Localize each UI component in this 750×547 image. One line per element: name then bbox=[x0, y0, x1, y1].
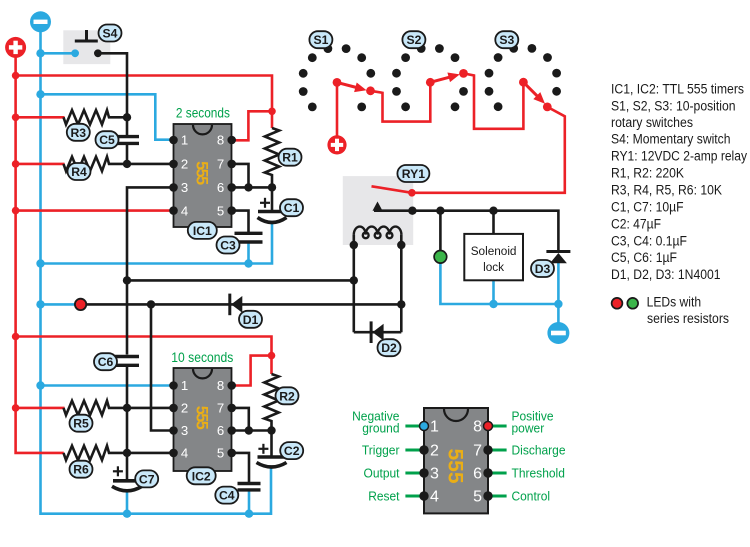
parts list legend text bbox=[611, 82, 747, 283]
svg-text:3: 3 bbox=[430, 466, 439, 483]
svg-text:IC1, IC2: TTL 555 timers: IC1, IC2: TTL 555 timers bbox=[611, 82, 744, 97]
svg-text:C3, C4: 0.1µF: C3, C4: 0.1µF bbox=[611, 233, 687, 248]
wire red R2 top lead bbox=[270, 356, 273, 374]
negative supply terminal bottom right bbox=[547, 322, 569, 344]
svg-text:series resistors: series resistors bbox=[647, 311, 729, 326]
svg-text:1: 1 bbox=[181, 133, 188, 148]
label pill RY1 bbox=[397, 165, 429, 182]
capacitor C4 bbox=[238, 484, 261, 490]
capacitor C6 bbox=[115, 357, 139, 366]
wire black IC1 pin 3 left and down to C6 top bbox=[127, 187, 174, 354]
wire red R1 node to IC1 pin 8 bbox=[232, 111, 272, 140]
svg-text:ground: ground bbox=[362, 422, 399, 436]
svg-text:LEDs with: LEDs with bbox=[647, 295, 702, 310]
label pill R2 bbox=[276, 387, 299, 404]
IC2 pin dots bbox=[169, 381, 236, 457]
svg-text:C4: C4 bbox=[219, 489, 235, 503]
wire black solenoid top stub bbox=[492, 211, 495, 234]
label pill S2 bbox=[402, 31, 425, 48]
svg-text:IC2: IC2 bbox=[192, 469, 211, 483]
svg-text:8: 8 bbox=[217, 133, 224, 148]
wire red rail to R2 top node bbox=[16, 337, 272, 356]
svg-text:C2: 47µF: C2: 47µF bbox=[611, 216, 661, 231]
svg-text:4: 4 bbox=[181, 203, 188, 218]
label pill R4 bbox=[68, 163, 91, 180]
wire black D2 loop bottom bbox=[354, 331, 402, 334]
wire red rail to R3 bbox=[16, 116, 65, 119]
svg-text:555: 555 bbox=[193, 406, 211, 430]
svg-text:D2: D2 bbox=[381, 341, 397, 355]
label pill R3 bbox=[67, 124, 90, 141]
555 pinout green labels bbox=[352, 410, 565, 504]
resistor R2 zigzag vertical bbox=[264, 374, 278, 431]
svg-text:S4: S4 bbox=[103, 27, 118, 41]
positive supply terminal at S1 bbox=[327, 135, 346, 154]
svg-text:Output: Output bbox=[364, 466, 400, 480]
svg-text:2: 2 bbox=[430, 443, 439, 460]
svg-text:power: power bbox=[512, 422, 545, 436]
label pill S4 bbox=[99, 25, 122, 42]
wire black IC2 pin 6 line to R2 bottom bbox=[232, 429, 272, 432]
wire black relay coil left leg down to D2 loop bbox=[352, 235, 355, 333]
label pill S1 bbox=[309, 31, 332, 48]
capacitor C1 polarized bbox=[258, 198, 287, 223]
IC1 555 timer body bbox=[174, 124, 232, 227]
svg-text:R3: R3 bbox=[71, 126, 87, 140]
svg-text:RY1: RY1 bbox=[402, 167, 425, 181]
svg-text:C1: C1 bbox=[284, 201, 300, 215]
wire black relay coil right leg down to D2 loop bbox=[400, 235, 403, 333]
wire blue C1 bottom to rail bbox=[41, 224, 273, 264]
green LED indicator bbox=[434, 250, 447, 263]
svg-text:C2: C2 bbox=[284, 444, 300, 458]
svg-text:7: 7 bbox=[217, 401, 224, 416]
svg-text:2: 2 bbox=[181, 157, 188, 172]
rotary switch S3 selected contact and wiper arrow bbox=[519, 78, 552, 112]
wire red R1 top lead bbox=[271, 111, 274, 128]
svg-text:C1, C7: 10µF: C1, C7: 10µF bbox=[611, 200, 684, 215]
svg-text:4: 4 bbox=[181, 446, 188, 461]
resistor R1 zigzag vertical bbox=[265, 128, 279, 187]
wire blue rail to IC1 pin 1 bbox=[41, 94, 174, 139]
label pill C1 bbox=[280, 199, 303, 216]
wire red rail to R1 top node bbox=[16, 76, 272, 112]
wire black C2 top lead bbox=[270, 431, 273, 456]
555 pinout pin numbers bbox=[430, 419, 482, 506]
svg-text:S1, S2, S3: 10-position: S1, S2, S3: 10-position bbox=[611, 98, 736, 113]
capacitor C5 bbox=[115, 137, 139, 144]
svg-text:C6: C6 bbox=[98, 355, 114, 369]
wire black relay contact line to solenoid, green LED and D3 bbox=[374, 211, 558, 250]
legend red LED symbol bbox=[612, 298, 623, 309]
diode D3 bbox=[546, 252, 570, 264]
svg-text:8: 8 bbox=[217, 378, 224, 393]
svg-text:10 seconds: 10 seconds bbox=[171, 350, 233, 365]
svg-text:lock: lock bbox=[483, 260, 505, 274]
resistor R3 zigzag bbox=[64, 110, 128, 124]
label pill C6 bbox=[94, 353, 117, 370]
wire blue D3 anode down to minus terminal bbox=[557, 263, 560, 323]
wire red S3 contact to relay RY1 armature contact bbox=[412, 107, 565, 193]
capacitor C3 bbox=[235, 233, 263, 242]
555 pinout diagram IC body bbox=[424, 408, 488, 513]
wire black IC1 pin3 column node to relay coil left bbox=[127, 279, 354, 282]
legend green LED symbol bbox=[627, 298, 638, 309]
wire blue negative rail from minus terminal down and along bottom to C2 bbox=[41, 30, 272, 514]
relay RY1 armature contact dot bbox=[408, 189, 416, 197]
label pill D1 bbox=[239, 311, 262, 328]
wire black IC2 pin 7 jog down to pin 6 line bbox=[232, 408, 249, 431]
svg-text:rotary switches: rotary switches bbox=[611, 115, 693, 130]
svg-text:5: 5 bbox=[217, 446, 224, 461]
wire black IC1 pin 5 to C3 top bbox=[232, 211, 249, 232]
svg-text:555: 555 bbox=[444, 448, 467, 483]
label pill C3 bbox=[217, 237, 240, 254]
wire blue C7 bottom stub bbox=[126, 491, 129, 514]
svg-text:D1: D1 bbox=[243, 313, 259, 327]
diode D1 bbox=[230, 294, 243, 316]
red LED indicator bbox=[75, 299, 86, 310]
555 pinout other pin dots bbox=[419, 445, 492, 500]
svg-text:RY1: 12VDC 2-amp relay: RY1: 12VDC 2-amp relay bbox=[611, 149, 747, 164]
resistor R4 zigzag and lead to IC1 pin 2 bbox=[64, 157, 174, 171]
label pill R6 bbox=[70, 461, 93, 478]
svg-text:Threshold: Threshold bbox=[512, 466, 565, 480]
wire red S2 contact to S3 wiper bbox=[464, 73, 524, 128]
svg-text:R5: R5 bbox=[73, 417, 89, 431]
svg-text:7: 7 bbox=[217, 157, 224, 172]
label pill C4 bbox=[215, 487, 238, 504]
label pill S3 bbox=[495, 31, 518, 48]
svg-text:C7: C7 bbox=[139, 472, 155, 486]
capacitor C7 polarized bbox=[112, 466, 142, 491]
switch S4 momentary pushbutton symbol bbox=[71, 30, 102, 57]
svg-text:R1, R2: 220K: R1, R2: 220K bbox=[611, 166, 684, 181]
svg-text:2 seconds: 2 seconds bbox=[176, 106, 230, 121]
svg-text:R1: R1 bbox=[282, 151, 298, 165]
wire blue green-LED to D3 node bbox=[440, 263, 558, 304]
rotary switch S1 contacts bbox=[299, 44, 375, 111]
label pill C7 bbox=[135, 470, 158, 487]
svg-text:7: 7 bbox=[473, 443, 482, 460]
svg-text:C5: C5 bbox=[99, 133, 115, 147]
wire black C1 top lead bbox=[271, 187, 274, 210]
label pill IC2 bbox=[187, 467, 216, 484]
svg-text:IC1: IC1 bbox=[193, 224, 212, 238]
IC2 555 timer body bbox=[174, 368, 232, 471]
wire red plus supply to S1 wiper bbox=[336, 82, 339, 136]
svg-text:D3: D3 bbox=[535, 262, 551, 276]
svg-text:S4: Momentary switch: S4: Momentary switch bbox=[611, 132, 731, 147]
svg-text:S2: S2 bbox=[406, 33, 421, 47]
svg-text:R6: R6 bbox=[73, 463, 89, 477]
relay RY1 background panel bbox=[343, 176, 413, 245]
rotary switch S2 selected contact and wiper arrow bbox=[426, 69, 468, 87]
svg-text:C3: C3 bbox=[220, 239, 236, 253]
junction dots black bbox=[123, 113, 498, 457]
junction dots red bbox=[12, 72, 276, 412]
svg-text:R2: R2 bbox=[279, 389, 295, 403]
svg-text:6: 6 bbox=[473, 466, 482, 483]
negative supply terminal top left bbox=[30, 11, 51, 32]
svg-text:8: 8 bbox=[473, 419, 482, 436]
diode D2 bbox=[371, 321, 384, 343]
svg-text:3: 3 bbox=[181, 423, 188, 438]
wire blue solenoid bottom stub bbox=[492, 280, 495, 304]
svg-text:Discharge: Discharge bbox=[512, 444, 566, 458]
wire blue rail to IC2 pin 1 bbox=[41, 384, 174, 387]
svg-text:S1: S1 bbox=[313, 33, 328, 47]
wire black IC1 pin 7 jog down to pin 6 line bbox=[232, 164, 249, 188]
solenoid lock box bbox=[464, 234, 523, 280]
label pill IC1 bbox=[188, 222, 217, 239]
svg-text:6: 6 bbox=[217, 180, 224, 195]
rotary switch S1 selected contact and wiper arrow bbox=[333, 78, 375, 95]
wire black S4 right contact down to R3 node bbox=[98, 53, 127, 117]
resistor R6 zigzag and lead to IC2 pin 4 bbox=[64, 446, 174, 460]
switch S4 background panel bbox=[63, 30, 110, 64]
IC2 pin numbers bbox=[181, 378, 224, 460]
svg-text:R3, R4, R5, R6: 10K: R3, R4, R5, R6: 10K bbox=[611, 183, 722, 198]
wire black C5 bottom to R4 node bbox=[126, 145, 129, 164]
svg-text:Solenoid: Solenoid bbox=[471, 244, 517, 258]
label pill R5 bbox=[70, 415, 93, 432]
label pill C2 bbox=[280, 442, 303, 459]
555 pinout green pin stubs bbox=[405, 426, 506, 496]
svg-text:5: 5 bbox=[217, 203, 224, 218]
label pill D2 bbox=[378, 339, 401, 356]
svg-text:1: 1 bbox=[181, 378, 188, 393]
svg-text:1: 1 bbox=[430, 419, 439, 436]
relay RY1 coil bbox=[354, 227, 402, 239]
svg-text:Trigger: Trigger bbox=[362, 444, 400, 458]
IC1 pin numbers bbox=[181, 133, 224, 219]
svg-text:Control: Control bbox=[512, 490, 551, 504]
wire black red LED to D1 to relay coil right bbox=[84, 303, 401, 306]
svg-text:S3: S3 bbox=[499, 33, 514, 47]
wire black IC2 pin 5 to C4 top bbox=[232, 453, 249, 482]
svg-text:4: 4 bbox=[430, 489, 439, 506]
svg-text:555: 555 bbox=[193, 161, 211, 185]
wire black C6 bottom down to R5 node, R6 node and C7 top bbox=[126, 367, 129, 480]
label pill C5 bbox=[96, 131, 119, 148]
555 pinout pin 1 dot blue bbox=[420, 422, 429, 431]
label pill R1 bbox=[279, 149, 302, 166]
wire black IC1 pin 6 line to R1 bottom bbox=[232, 186, 272, 189]
svg-text:D1, D2, D3: 1N4001: D1, D2, D3: 1N4001 bbox=[611, 267, 721, 282]
rotary switch S3 contacts bbox=[485, 44, 561, 111]
svg-text:R4: R4 bbox=[71, 165, 87, 179]
svg-text:3: 3 bbox=[181, 180, 188, 195]
wire red rail to R4 bbox=[16, 163, 65, 166]
555 pinout pin 8 dot red bbox=[484, 422, 493, 431]
wire red positive rail from plus terminal down to R6 lead bbox=[16, 56, 64, 453]
svg-text:6: 6 bbox=[217, 423, 224, 438]
relay RY1 fixed contact triangle bbox=[373, 202, 383, 211]
wire red R2 node to IC2 pin 8 bbox=[232, 356, 272, 386]
wire black green LED top stub bbox=[439, 211, 442, 251]
legend LED caption bbox=[647, 295, 730, 326]
wire blue rail to S4 left contact bbox=[41, 52, 76, 55]
wire blue C4 bottom stub bbox=[248, 491, 251, 514]
positive supply terminal top left bbox=[5, 37, 26, 58]
junction dots blue bbox=[36, 49, 562, 518]
wire black D1 node down to IC2 pin 3 bbox=[151, 304, 174, 430]
wire red S1 contact to S2 wiper bbox=[371, 82, 431, 121]
capacitor C2 polarized bbox=[257, 444, 287, 467]
resistor R5 zigzag and lead to IC2 pin 2 bbox=[64, 401, 174, 415]
label pill D3 bbox=[531, 260, 554, 277]
relay RY1 armature arm bbox=[372, 186, 412, 193]
svg-text:2: 2 bbox=[181, 401, 188, 416]
rotary switch S2 contacts bbox=[392, 44, 468, 111]
svg-text:Reset: Reset bbox=[368, 490, 400, 504]
wire black R3 node to C5 top bbox=[126, 117, 129, 135]
wire red rail to R5 bbox=[16, 407, 65, 410]
svg-text:5: 5 bbox=[473, 489, 482, 506]
IC1 pin dots bbox=[169, 136, 236, 215]
svg-text:C5, C6: 1µF: C5, C6: 1µF bbox=[611, 250, 677, 265]
wire blue rail to red LED bbox=[41, 303, 79, 306]
wire red rail to IC1 pin 4 bbox=[16, 209, 174, 212]
wire blue C3 bottom stub bbox=[247, 244, 250, 264]
